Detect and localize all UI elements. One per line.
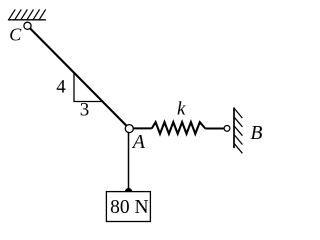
- pin circle B: [224, 125, 230, 131]
- wire spring to B: [205, 128, 224, 130]
- wall hatching at B: [234, 109, 242, 154]
- svg-text:C: C: [9, 25, 22, 45]
- weight box: [106, 192, 150, 222]
- rod C to A: [28, 26, 130, 129]
- spring k: [152, 122, 206, 134]
- slope triangle: [74, 72, 102, 101]
- pin circle C: [24, 22, 31, 29]
- string A to weight: [128, 133, 130, 192]
- svg-text:3: 3: [80, 100, 90, 121]
- pin circle A: [125, 125, 133, 133]
- attachment dome on box: [125, 188, 133, 192]
- svg-text:4: 4: [56, 77, 66, 98]
- svg-text:k: k: [177, 99, 186, 120]
- wire A to spring: [133, 127, 152, 129]
- svg-text:B: B: [251, 123, 263, 144]
- wall line at B: [233, 107, 235, 148]
- svg-text:A: A: [131, 131, 146, 153]
- svg-text:80 N: 80 N: [110, 197, 148, 218]
- ceiling line: [8, 19, 46, 21]
- ceiling hatching at C: [9, 9, 46, 19]
